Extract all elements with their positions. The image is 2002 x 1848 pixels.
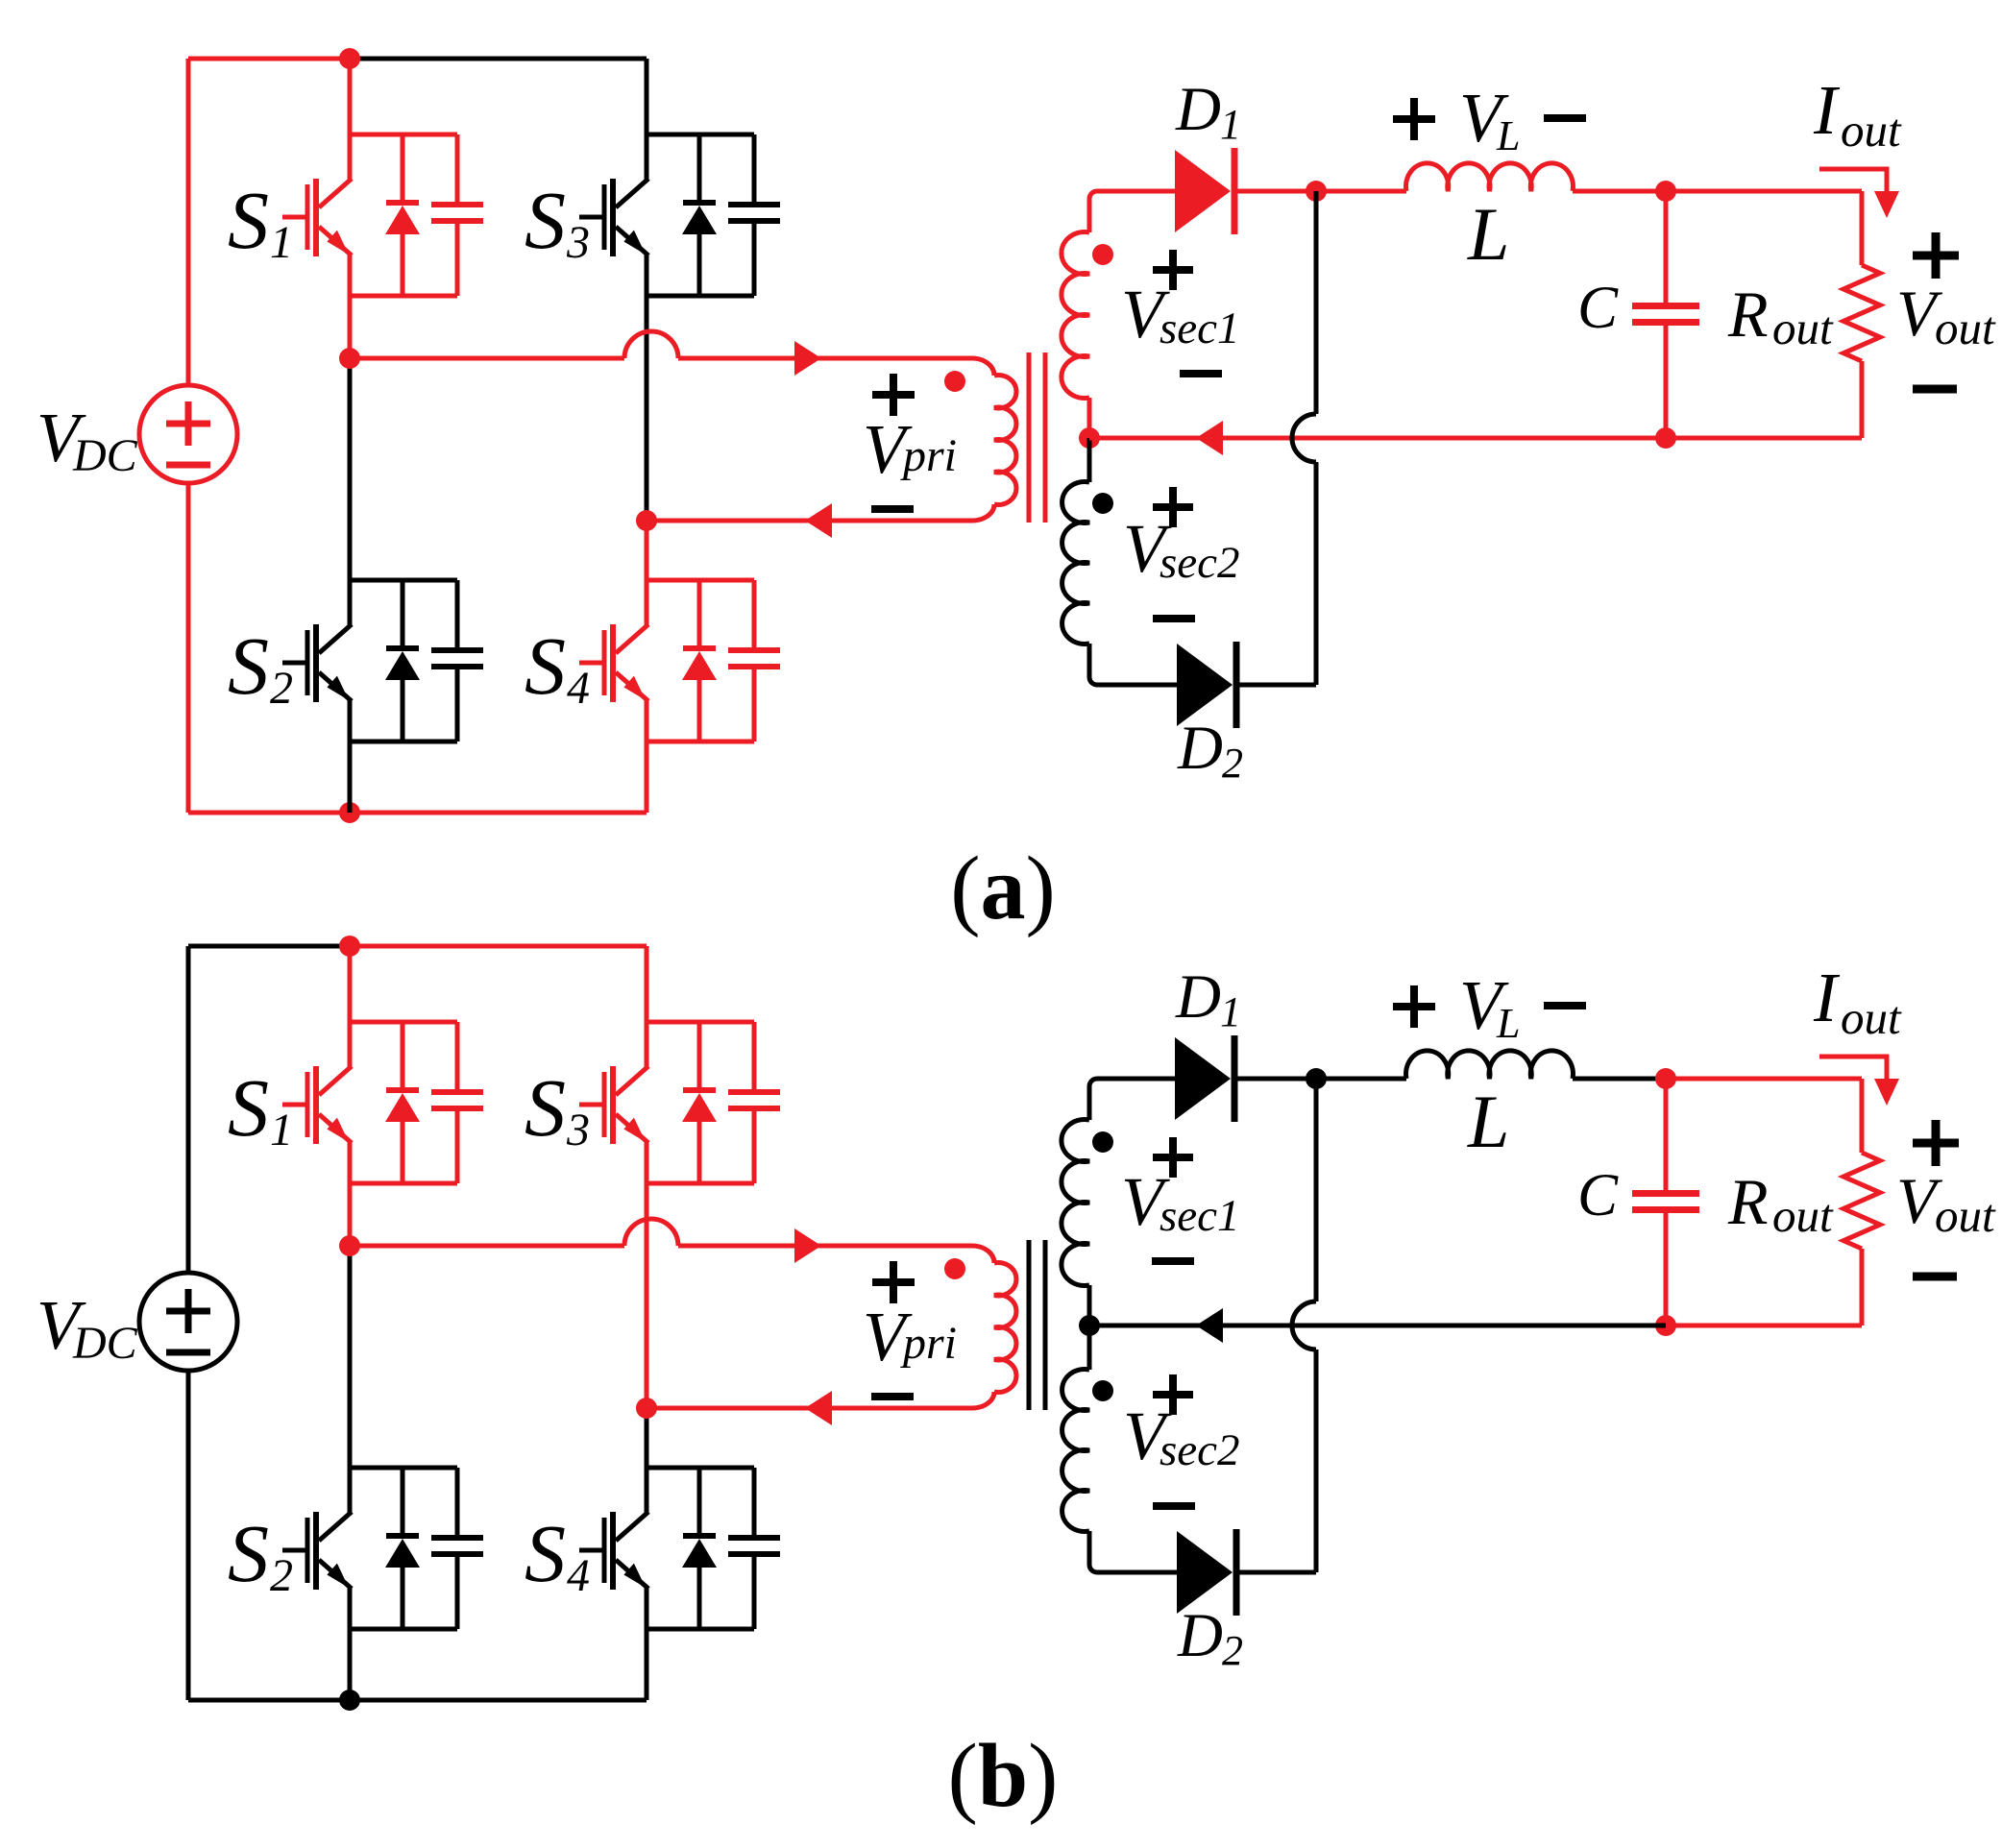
svg-text:out: out [1935,1189,1996,1242]
svg-text:3: 3 [566,1105,590,1155]
svg-text:L: L [1467,192,1509,276]
svg-text:1: 1 [270,217,293,268]
svg-text:pri: pri [900,1318,957,1369]
svg-text:1: 1 [1220,988,1241,1035]
svg-text:(b): (b) [948,1726,1059,1826]
svg-text:4: 4 [567,663,590,714]
svg-text:S: S [525,1061,566,1154]
svg-text:sec1: sec1 [1160,1191,1240,1241]
svg-text:2: 2 [270,663,293,714]
svg-text:2: 2 [1222,740,1243,787]
svg-text:out: out [1772,1189,1834,1242]
svg-text:1: 1 [1220,101,1241,148]
svg-text:L: L [1496,112,1520,159]
svg-text:2: 2 [1222,1627,1243,1674]
svg-text:(a): (a) [950,839,1056,938]
svg-text:S: S [525,620,566,712]
svg-text:2: 2 [270,1550,293,1601]
svg-text:L: L [1467,1080,1509,1163]
svg-text:S: S [228,1507,269,1599]
svg-text:I: I [1813,959,1841,1036]
svg-text:I: I [1813,71,1841,149]
svg-text:DC: DC [72,430,138,481]
svg-text:D: D [1177,1601,1223,1670]
svg-text:S: S [228,174,269,266]
svg-text:S: S [525,1507,566,1599]
svg-text:4: 4 [567,1550,590,1601]
svg-text:D: D [1175,75,1221,144]
svg-text:out: out [1772,302,1834,354]
svg-text:out: out [1841,991,1902,1044]
svg-text:1: 1 [270,1105,293,1155]
svg-text:pri: pri [900,430,957,481]
svg-text:L: L [1496,1000,1520,1047]
svg-text:R: R [1727,278,1769,351]
svg-text:S: S [228,1061,269,1154]
svg-text:C: C [1577,1161,1619,1228]
svg-text:out: out [1841,104,1902,157]
svg-text:D: D [1175,962,1221,1032]
svg-text:S: S [525,174,566,266]
svg-text:C: C [1577,274,1619,341]
svg-text:sec1: sec1 [1160,304,1240,353]
svg-text:DC: DC [72,1318,138,1369]
svg-text:sec2: sec2 [1160,1425,1240,1475]
svg-text:3: 3 [566,217,590,268]
svg-text:D: D [1177,714,1223,783]
svg-text:R: R [1727,1165,1769,1238]
svg-text:sec2: sec2 [1160,538,1240,588]
svg-text:out: out [1935,302,1996,354]
svg-text:S: S [228,620,269,712]
